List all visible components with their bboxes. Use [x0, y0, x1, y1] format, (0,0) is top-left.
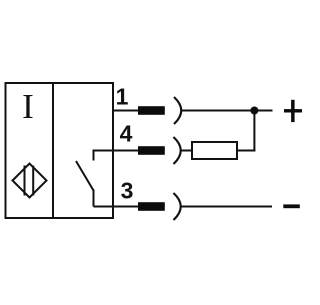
wire arc4 to load resistor — [180, 150, 192, 152]
junction dot node A — [250, 107, 258, 115]
connector socket arc pin 3 — [174, 193, 181, 220]
wire pin1 to connector pin — [112, 110, 139, 112]
switch blade — [76, 161, 94, 191]
minus terminal — [283, 204, 300, 208]
wire switch to connector pin 3 — [94, 206, 140, 208]
inductive sensing element symbol (diamond) — [13, 164, 47, 198]
connector socket arc pin 1 — [174, 97, 181, 124]
sensor body outline — [6, 83, 114, 218]
connector pin 1 (male contact) — [138, 106, 165, 115]
wire load resistor to junction branch — [237, 150, 255, 152]
inductive symbol right bar — [32, 166, 34, 196]
wire arc1 to plus terminal — [181, 110, 273, 112]
svg-text:I: I — [22, 87, 34, 126]
connector pin 3 (male contact) — [138, 202, 165, 211]
svg-text:1: 1 — [116, 84, 129, 110]
svg-text:3: 3 — [121, 178, 134, 204]
connector pin 4 (male contact) — [138, 146, 165, 155]
load resistor RL — [192, 142, 237, 159]
wire junction down to load — [253, 111, 255, 152]
plus terminal — [284, 109, 302, 112]
sensor body divider — [52, 83, 54, 218]
wire arc3 to minus terminal — [180, 206, 272, 208]
inductive symbol left bar — [24, 166, 26, 196]
wire switch to connector pin 4 — [94, 150, 140, 152]
switch lower lead — [93, 190, 95, 207]
connector socket arc pin 4 — [174, 137, 181, 164]
switch Q (NO contact) fixed contact stub — [93, 150, 95, 161]
svg-text:4: 4 — [120, 121, 133, 147]
